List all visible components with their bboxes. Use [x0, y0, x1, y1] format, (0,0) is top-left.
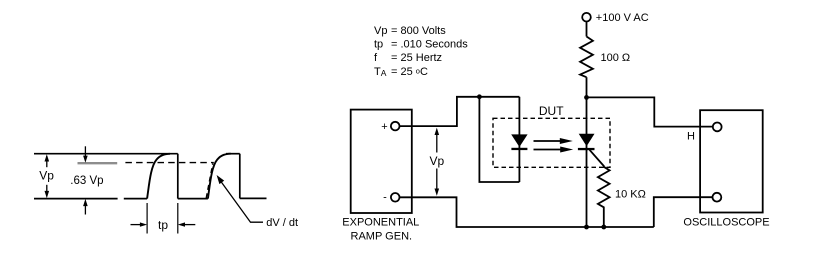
svg-text:+100 V AC: +100 V AC — [596, 12, 649, 24]
svg-text:tp: tp — [374, 39, 383, 51]
dimension Vp arrow (circuit) lower segment — [436, 169, 438, 193]
photo-SCR gate lead — [590, 150, 604, 168]
svg-text:RAMP GEN.: RAMP GEN. — [351, 230, 413, 242]
svg-text:= 25 oC: = 25 oC — [391, 66, 428, 78]
LED D1 triangle — [511, 134, 527, 147]
dimension Vp arrow upper segment — [46, 156, 48, 167]
resistor R2 10 KΩ zigzag — [598, 167, 610, 227]
waveform top reference line (Vp level) — [34, 153, 178, 155]
arrowhead Vp bottom (waveform) — [45, 191, 50, 198]
dashed dV/dt tangent on pulse 2 — [206, 163, 213, 198]
dimension Vp arrow (circuit) upper segment — [436, 131, 438, 153]
svg-text:= .010 Seconds: = .010 Seconds — [391, 39, 468, 51]
terminal oscilloscope H — [713, 123, 722, 132]
junction node dot top rail — [477, 94, 482, 99]
exponential ramp generator box — [351, 110, 412, 213]
.63 Vp level line (gray) — [78, 162, 118, 164]
junction node dot 10K / rail — [601, 225, 606, 230]
svg-text:.63 Vp: .63 Vp — [70, 175, 103, 187]
arrowhead .63Vp up — [83, 199, 88, 206]
resistor R1 100 Ω zigzag — [580, 37, 593, 78]
svg-text:tp: tp — [158, 218, 168, 232]
optocoupler light arrow lower shaft — [534, 149, 562, 151]
svg-text:-: - — [383, 192, 387, 204]
wire photo-SCR anode/cathode branch — [586, 97, 588, 227]
arrowhead Vp top (waveform) — [45, 154, 50, 161]
junction node dot SCR cathode / rail — [584, 225, 589, 230]
terminal oscilloscope ground — [713, 193, 722, 202]
arrowhead tp right pointing left — [178, 222, 185, 226]
waveform falling edge pulse 2 — [239, 154, 241, 199]
photo-SCR Q1 triangle — [579, 134, 595, 147]
svg-text:OSCILLOSCOPE: OSCILLOSCOPE — [683, 216, 769, 228]
dimension .63Vp bottom arrow line — [84, 204, 86, 215]
terminal ramp gen - — [391, 193, 400, 202]
svg-text:= 800 Volts: = 800 Volts — [391, 25, 446, 37]
optocoupler light arrowhead upper — [560, 138, 573, 144]
wire LED branch — [518, 97, 520, 182]
dV/dt leader line — [219, 179, 263, 222]
DUT dashed package outline — [493, 118, 610, 167]
svg-text:10 KΩ: 10 KΩ — [615, 189, 646, 201]
tp right arrow line — [184, 224, 195, 226]
junction node dot 100Ω / scope — [584, 95, 589, 100]
svg-text:+: + — [381, 121, 387, 133]
tp left arrow line — [131, 224, 142, 226]
terminal ramp gen + — [391, 122, 400, 131]
wire node to oscilloscope H input — [587, 97, 713, 126]
arrowhead circuit Vp bottom — [435, 189, 440, 196]
oscilloscope box — [700, 110, 763, 212]
svg-text:= 25 Hertz: = 25 Hertz — [391, 52, 442, 64]
svg-text:f: f — [374, 52, 378, 64]
waveform bottom reference line — [34, 198, 118, 200]
wire ramp gen + output — [400, 97, 520, 126]
terminal +100 V AC — [582, 13, 591, 22]
arrowhead circuit Vp top — [435, 128, 440, 135]
wire LED shorting loop — [479, 97, 519, 182]
svg-text:H: H — [687, 130, 695, 142]
wire bottom rail to oscilloscope ground — [654, 197, 713, 227]
svg-text:Vp: Vp — [430, 154, 445, 168]
waveform baseline 2 — [178, 198, 208, 200]
tp extension line left — [146, 203, 148, 234]
svg-text:100 Ω: 100 Ω — [601, 52, 631, 64]
optocoupler light arrow upper shaft — [534, 140, 562, 142]
svg-text:TA: TA — [374, 66, 387, 78]
photo-SCR Q1 cathode bar — [578, 148, 595, 150]
dimension Vp arrow lower segment — [46, 185, 48, 196]
wire 100Ω to node — [586, 77, 588, 97]
waveform falling edge pulse 1 — [177, 154, 179, 199]
svg-text:Vp: Vp — [374, 25, 387, 37]
waveform top pulse 2 — [226, 153, 240, 155]
arrowhead tp left pointing right — [140, 222, 147, 226]
svg-text:DUT: DUT — [539, 104, 564, 118]
wire waveform baseline 1 — [124, 198, 147, 200]
svg-text:dV / dt: dV / dt — [266, 217, 298, 229]
svg-text:EXPONENTIAL: EXPONENTIAL — [342, 216, 419, 228]
tp extension line right — [177, 203, 179, 234]
waveform baseline 3 — [240, 197, 267, 199]
LED D1 cathode bar — [511, 148, 527, 150]
waveform exponential rise pulse 2 — [208, 154, 231, 199]
wire +100V AC source lead — [586, 22, 588, 37]
arrowhead .63Vp down — [83, 156, 88, 163]
dashed .63 Vp level line — [125, 162, 213, 164]
optocoupler light arrowhead lower — [560, 147, 573, 153]
svg-text:Vp: Vp — [39, 169, 54, 183]
wire ramp gen - output to bottom rail — [400, 197, 654, 227]
waveform exponential rise pulse 1 — [147, 154, 170, 199]
arrowhead dV/dt leader — [217, 175, 225, 184]
dimension .63Vp top arrow line — [84, 146, 86, 157]
